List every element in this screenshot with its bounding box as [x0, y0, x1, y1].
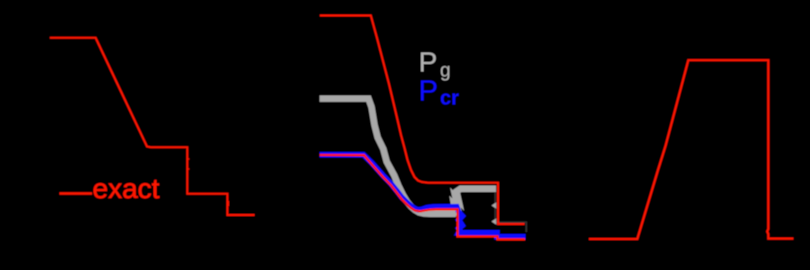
svg-text:P: P — [419, 76, 438, 108]
gray arrow marks on dark line — [492, 202, 497, 224]
svg-text:g: g — [440, 60, 451, 81]
svg-text:exact: exact — [93, 173, 160, 204]
panel 3 exact curve (red) — [589, 60, 794, 239]
svg-text:P: P — [419, 46, 438, 77]
legend line — [60, 192, 93, 195]
panel 1 vertical nubs — [187, 159, 228, 206]
svg-text:cr: cr — [440, 88, 459, 110]
panel 2 red exact Pcr curve (thin, follows blue) — [320, 155, 525, 239]
panel 2 dark gray shock line — [495, 191, 526, 232]
panel 2 red exact Pg curve (top) — [320, 16, 525, 225]
panel 2 blue Pcr numerical curve — [320, 155, 526, 237]
panel 1 exact pressure curve (red) — [50, 38, 255, 215]
panel 2 gray Pg numerical curve — [320, 99, 496, 214]
